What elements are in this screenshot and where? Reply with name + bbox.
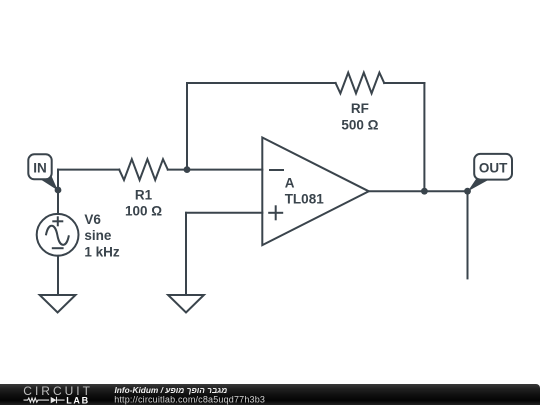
resistor R1 (119, 159, 168, 180)
V6 sine waveform (46, 226, 69, 245)
node A junction R1/feedback (184, 166, 191, 173)
wire V6 bottom to ground (57, 256, 59, 295)
ground under V6 (40, 295, 76, 313)
svg-text:Info-Kidum / מגבר הופך מופע: Info-Kidum / מגבר הופך מופע (115, 385, 228, 395)
op-amp A TL081 (262, 138, 369, 246)
ground under non-inverting input (168, 295, 204, 313)
svg-text:http://circuitlab.com/c8a5uqd7: http://circuitlab.com/c8a5uqd77h3b3 (114, 394, 265, 404)
wire op-amp non-inverting input (186, 212, 262, 214)
wire IN column down to V6 (57, 170, 59, 214)
terminal IN (28, 154, 58, 190)
footer bar (0, 384, 540, 405)
wire feedback top to RF (187, 82, 336, 84)
node at OUT (464, 188, 471, 195)
node at IN (55, 187, 62, 194)
wire R1 to op-amp inverting input (168, 169, 262, 171)
wire op-amp output to OUT node (369, 190, 468, 192)
wire IN node to R1 (58, 169, 119, 171)
op-amp plus input symbol (268, 212, 283, 214)
V6 minus sign (52, 247, 64, 249)
node junction RF/output (421, 188, 428, 195)
logo waveform (24, 397, 65, 403)
op-amp minus input symbol (269, 169, 284, 171)
voltage source V6 (37, 214, 79, 256)
terminal OUT (468, 154, 512, 192)
wire RF to right corner (384, 82, 424, 84)
wire feedback down to output (423, 83, 425, 191)
V6 plus sign (52, 220, 63, 222)
logo diode (51, 397, 57, 403)
wire non-inverting input down to ground (185, 213, 187, 295)
wire feedback up from node A (186, 83, 188, 170)
wire dangling below OUT node (467, 191, 469, 278)
resistor RF (336, 73, 385, 94)
svg-text:LAB: LAB (66, 395, 90, 405)
